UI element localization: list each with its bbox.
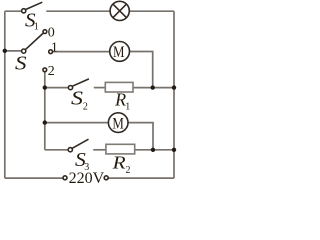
wire S3 row corner to S3 pivot xyxy=(45,149,69,151)
wire R1 to right wire xyxy=(133,87,174,89)
contact 0 circle xyxy=(43,30,47,34)
resistor R1 box xyxy=(105,82,133,92)
wire contact 2 down to node B xyxy=(44,72,46,88)
wire bottom right segment xyxy=(108,177,174,179)
switch S3 blade xyxy=(72,139,88,148)
wire M1 right then down to R1 row xyxy=(129,52,152,88)
wire S3 blade end to R2 xyxy=(93,149,106,151)
svg-text:2: 2 xyxy=(126,165,131,176)
lamp X diagonal 2 xyxy=(113,4,127,18)
wire node C to motor M2 xyxy=(45,122,109,124)
junction node C xyxy=(43,120,47,124)
wire node B down to S3 row corner xyxy=(44,88,46,150)
svg-text:1: 1 xyxy=(34,21,39,32)
wire node A to S pivot xyxy=(5,50,22,52)
wire top middle segment S1 to lamp xyxy=(46,10,110,12)
motor M1 circle xyxy=(110,42,130,62)
junction R2 row at right wire xyxy=(172,148,176,152)
wire M2 right then down to R2 row xyxy=(128,123,153,150)
svg-text:220V: 220V xyxy=(69,170,105,186)
wire S2 blade end to R1 xyxy=(94,87,106,89)
wire contact 1 to motor M1 xyxy=(52,51,110,53)
switch S2 pivot xyxy=(68,86,72,90)
svg-text:M: M xyxy=(113,44,125,61)
svg-text:S: S xyxy=(15,52,27,74)
resistor R2 box xyxy=(106,144,135,154)
svg-text:1: 1 xyxy=(51,40,58,55)
switch S blade xyxy=(25,33,43,50)
svg-text:R: R xyxy=(112,153,126,173)
lamp circle xyxy=(110,1,129,20)
junction node A xyxy=(3,49,7,53)
switch S2 blade xyxy=(72,79,89,86)
wire top left segment xyxy=(5,10,22,12)
junction M2 branch on R2 row xyxy=(151,148,155,152)
svg-text:M: M xyxy=(112,115,124,132)
svg-text:2: 2 xyxy=(48,64,55,79)
lamp X diagonal 1 xyxy=(113,4,127,18)
junction M1 branch on R1 row xyxy=(151,85,155,89)
terminal right of 220V xyxy=(104,176,108,180)
contact 1 circle xyxy=(49,50,53,54)
wire node B to S2 pivot xyxy=(45,87,69,89)
wire right vertical xyxy=(173,11,175,178)
svg-text:0: 0 xyxy=(48,25,55,40)
svg-text:S: S xyxy=(71,88,83,110)
wire lamp to right corner xyxy=(129,10,174,12)
wire R2 to right wire xyxy=(135,149,174,151)
switch S1 pivot xyxy=(22,9,26,13)
terminal left of 220V xyxy=(63,176,67,180)
svg-text:2: 2 xyxy=(83,101,88,112)
svg-text:1: 1 xyxy=(125,102,130,113)
switch S3 pivot xyxy=(68,148,72,152)
motor M2 circle xyxy=(108,113,128,133)
switch S1 blade xyxy=(26,2,43,9)
switch S pivot xyxy=(22,49,26,53)
junction R1 row at right wire xyxy=(172,85,176,89)
wire left vertical xyxy=(4,11,6,178)
wire bottom left segment xyxy=(5,177,63,179)
junction node B xyxy=(43,85,47,89)
contact 2 circle xyxy=(43,68,47,72)
